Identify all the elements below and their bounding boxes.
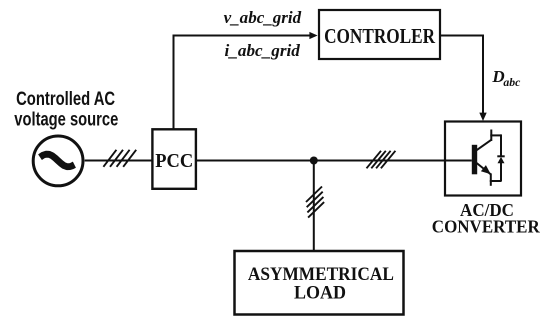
svg-text:Controlled AC: Controlled AC bbox=[16, 89, 115, 110]
svg-text:CONVERTER: CONVERTER bbox=[432, 217, 540, 237]
svg-text:CONTROLER: CONTROLER bbox=[324, 24, 436, 48]
svg-text:abc: abc bbox=[503, 75, 521, 89]
svg-text:i_abc_grid: i_abc_grid bbox=[225, 41, 301, 60]
svg-text:LOAD: LOAD bbox=[294, 282, 346, 303]
svg-text:PCC: PCC bbox=[155, 150, 193, 172]
svg-text:voltage source: voltage source bbox=[14, 110, 118, 131]
svg-text:v_abc_grid: v_abc_grid bbox=[224, 8, 302, 27]
